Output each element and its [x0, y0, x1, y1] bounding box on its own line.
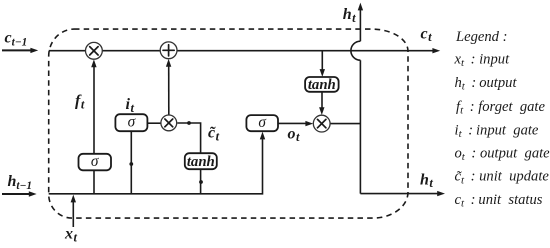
- svg-text:tanh: tanh: [187, 154, 215, 170]
- svg-text:ot : output gate: ot : output gate: [455, 145, 550, 163]
- wire: c-line (top horizontal cell state): [49, 50, 434, 52]
- junction dot on i branch: [129, 162, 133, 166]
- wire: c-line junction -> tanh2: [321, 51, 323, 72]
- svg-text:xt : input: xt : input: [454, 52, 511, 70]
- svg-text:Legend :: Legend :: [455, 29, 507, 45]
- wire: h_t bottom output: [360, 193, 438, 195]
- wire: sigma_i -> mult3: [147, 122, 161, 124]
- wire: tanh1 -> mult3: [177, 123, 200, 153]
- svg-text:ct : unit status: ct : unit status: [455, 192, 543, 210]
- sigma box f gate: [79, 153, 112, 171]
- svg-text:ct−1: ct−1: [5, 30, 28, 49]
- wire: i branch (bottom line -> sigma_i): [130, 131, 132, 194]
- wire: h_(t-1) input arrow: [2, 193, 30, 195]
- svg-text:ht: ht: [343, 6, 356, 25]
- wire: tanh2 -> mult2: [321, 92, 323, 110]
- junction dot on tanh1->mult3 wire: [187, 121, 191, 125]
- tanh box (output path): [305, 77, 339, 93]
- wire: bottom h-line: [49, 138, 263, 194]
- svg-text:ft: ft: [75, 93, 85, 112]
- sigma box o gate: [246, 114, 278, 131]
- multiplier X2 (output gate): [313, 115, 330, 132]
- cell boundary (dashed rounded rect): [49, 29, 408, 218]
- wire: sigma_o -> mult2: [278, 122, 308, 124]
- svg-text:ot: ot: [288, 125, 301, 144]
- wire: f branch (bottom line -> sigma_f -> mult1): [93, 170, 95, 194]
- wire: mult2 -> h vertical line: [330, 123, 360, 125]
- svg-text:ft : forget gate: ft : forget gate: [456, 99, 545, 117]
- svg-text:tanh: tanh: [308, 77, 336, 93]
- svg-text:c̃t: c̃t: [208, 125, 220, 144]
- wire: h_t vertical (top part with up arrow): [359, 8, 361, 42]
- sigma box i gate: [115, 114, 147, 132]
- wire: x_t input arrow: [72, 200, 74, 228]
- svg-text:ct: ct: [421, 25, 433, 44]
- svg-text:it: it: [126, 96, 135, 115]
- wire: c_(t-1) input arrow: [2, 49, 32, 51]
- svg-text:c̃t : unit update: c̃t : unit update: [455, 169, 550, 187]
- tanh box (unit update): [185, 153, 217, 170]
- adder (plus) on c-line: [160, 42, 177, 59]
- arrowhead c_t output: [432, 48, 440, 53]
- multiplier X1 on c-line: [86, 42, 103, 59]
- wire: hop over c-line: [351, 41, 361, 60]
- svg-text:ht: ht: [420, 171, 433, 190]
- wire: mult3 -> plus: [168, 64, 170, 115]
- arrowhead into sigma_o bottom: [260, 132, 265, 140]
- wire: c-tilde branch (bottom line -> tanh1): [200, 169, 202, 194]
- svg-text:it : input gate: it : input gate: [455, 122, 539, 140]
- junction dot on c-tilde branch: [199, 180, 203, 184]
- svg-text:xt: xt: [64, 226, 78, 245]
- wire: h_t vertical (lower part): [359, 60, 361, 193]
- svg-text:ht−1: ht−1: [8, 173, 33, 192]
- svg-text:ht : output: ht : output: [455, 75, 518, 93]
- multiplier X3 (input gate): [161, 115, 177, 131]
